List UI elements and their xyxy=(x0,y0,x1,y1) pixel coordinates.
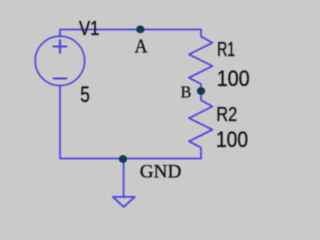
svg-text:GND: GND xyxy=(140,161,182,182)
svg-text:B: B xyxy=(181,83,192,102)
svg-text:R2: R2 xyxy=(216,104,237,126)
svg-text:R1: R1 xyxy=(217,39,235,61)
svg-text:5: 5 xyxy=(80,82,90,107)
svg-text:100: 100 xyxy=(216,127,248,152)
svg-text:A: A xyxy=(135,36,148,57)
svg-text:100: 100 xyxy=(217,66,250,91)
svg-text:V1: V1 xyxy=(79,18,100,40)
